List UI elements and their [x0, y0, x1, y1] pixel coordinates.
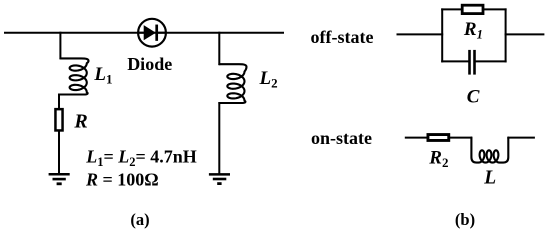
svg-text:L2: L2: [259, 68, 278, 91]
capacitor C: right plate: [473, 51, 476, 73]
diode Diode: anode lead: [138, 32, 144, 34]
wire: off-state bottom rail left segment: [442, 60, 468, 62]
svg-text:on-state: on-state: [311, 128, 372, 148]
svg-text:R = 100Ω: R = 100Ω: [85, 170, 159, 190]
wire: top rail of circuit (a): [5, 32, 283, 34]
wire: on-state lead R2 to L: [450, 137, 471, 139]
svg-text:L: L: [483, 168, 496, 189]
ground (right): [209, 174, 230, 183]
svg-text:(b): (b): [455, 210, 475, 229]
wire: off-state right branch vertical: [505, 9, 507, 61]
wire: right junction drop to L2: [218, 33, 220, 64]
ground (left): [49, 174, 70, 184]
svg-text:R1: R1: [463, 19, 483, 41]
wire: R to left ground: [58, 131, 60, 172]
svg-text:L1= L2= 4.7nH: L1= L2= 4.7nH: [85, 146, 197, 169]
wire: off-state top rail: [442, 8, 505, 10]
diode Diode: cathode bar: [155, 26, 158, 40]
wire: off-state left branch vertical: [441, 9, 443, 61]
capacitor C: left plate: [468, 51, 471, 73]
svg-text:(a): (a): [130, 210, 149, 229]
wire: off-state bottom rail right segment: [476, 60, 506, 62]
wire: L1 to resistor R: [58, 95, 60, 110]
wire: on-state left lead: [406, 137, 427, 139]
svg-text:off-state: off-state: [311, 27, 374, 47]
svg-text:R: R: [73, 110, 87, 132]
inductor L1: [59, 58, 89, 94]
diode Diode: circle body: [138, 19, 166, 47]
resistor R: [55, 109, 62, 130]
svg-text:C: C: [467, 87, 480, 108]
wire: left junction drop to L1: [59, 33, 61, 59]
inductor L2: [219, 64, 246, 103]
svg-text:L1: L1: [93, 64, 112, 87]
wire: off-state left lead: [398, 33, 443, 35]
diode Diode: cathode lead: [157, 32, 166, 34]
resistor R2: [428, 135, 449, 141]
svg-text:Diode: Diode: [127, 54, 172, 74]
wire: L2 to right ground: [218, 103, 220, 173]
wire: off-state right lead: [506, 33, 544, 35]
resistor R1: [462, 5, 483, 13]
svg-text:R2: R2: [428, 147, 448, 170]
wire: on-state right lead: [508, 137, 534, 139]
diode Diode: triangle: [144, 26, 155, 39]
inductor L (on-state): [471, 138, 508, 163]
